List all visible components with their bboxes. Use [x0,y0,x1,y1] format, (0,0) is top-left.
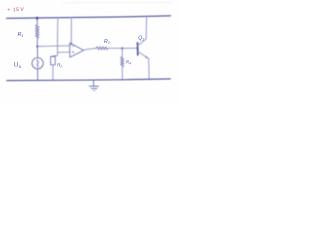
wire base node to transistor base [122,47,137,49]
wire divider jog to R2 [53,52,58,56]
svg-text:R2: R2 [57,63,62,69]
wire bottom 0V rail [7,79,171,81]
resistor R2 (box) [51,57,56,65]
node base junction [121,47,123,49]
transistor Q1 [138,17,150,80]
wire rail stub divider [57,17,59,52]
svg-text:R4: R4 [126,60,131,66]
wire source to bottom rail [37,69,39,80]
wire node A down to source [36,47,38,58]
wire rail to op-amp V+ [70,17,72,44]
wire R2 to bottom rail [52,65,54,81]
faint paper smudge [62,1,172,3]
wire R3 to base node [108,47,122,49]
node op-amp V+ blob [70,43,72,45]
wire base node down to R4 [121,48,123,56]
resistor R4 [121,57,124,68]
wire rail to R1 [36,18,38,25]
svg-text:Q1: Q1 [138,35,144,41]
node A junction [36,45,38,47]
op-amp U1 [70,43,84,57]
ground [89,80,98,90]
wire R1 to node A [36,38,38,46]
svg-text:R3: R3 [104,39,110,45]
source U_A [32,58,43,69]
resistor R1 [36,25,40,39]
wire divider tap to op-amp non-inverting input [58,51,70,53]
wire op-amp output to R3 [84,48,96,50]
svg-text:R1: R1 [18,32,24,38]
svg-text:Ua: Ua [14,62,22,69]
node junction rail-R1 [36,17,39,20]
svg-text:+ 15V: + 15V [7,7,24,13]
wire R4 to bottom rail [121,67,123,80]
resistor R3 [96,47,108,50]
wire top +15V rail [7,16,171,18]
wire node A to op-amp inverting input [37,45,69,48]
